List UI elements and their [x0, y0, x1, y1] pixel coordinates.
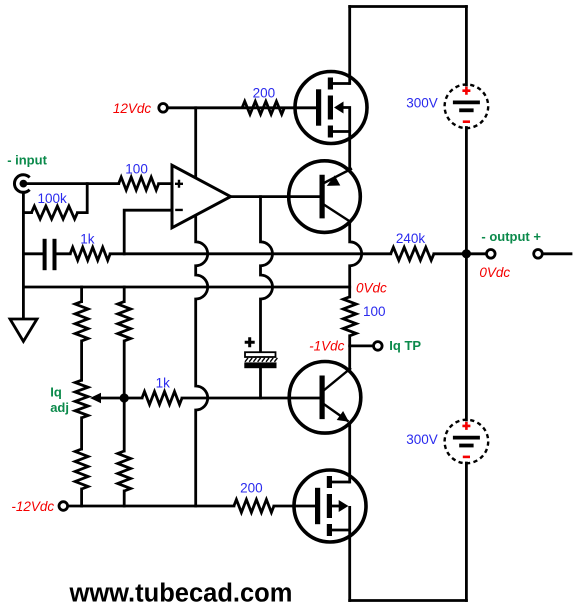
- wire chain2 middle: [123, 341, 126, 451]
- svg-text:Iq TP: Iq TP: [389, 338, 421, 353]
- wire op-amp - input to feedback node: [124, 210, 172, 254]
- svg-text:240k: 240k: [396, 231, 426, 246]
- resistor 100 (vertical, 0V to -1V): [343, 297, 356, 336]
- potentiometer Iq adj element: [75, 380, 88, 418]
- svg-text:-12Vdc: -12Vdc: [11, 499, 54, 514]
- svg-text:200: 200: [240, 481, 263, 496]
- resistor 1k (Iq, Q2 base): [142, 392, 182, 405]
- transistor Q1 (PNP): [289, 161, 361, 233]
- wire pot wiper from junction: [100, 397, 125, 400]
- node output junction: [462, 249, 471, 258]
- svg-text:100k: 100k: [38, 191, 68, 206]
- resistor 200 (bottom, M2 gate): [234, 500, 274, 513]
- node input jack (- input): [14, 175, 29, 193]
- wire feedback line 1k to 240k: [110, 252, 391, 255]
- terminal Iq TP: [374, 342, 383, 351]
- wire 200 to M2 gate: [274, 505, 315, 508]
- wire input cap left lead: [23, 252, 42, 255]
- battery B1 300V (top): [445, 85, 489, 129]
- wire chain1 between pot and R: [80, 418, 83, 449]
- terminal - output: [487, 250, 496, 259]
- wire pot wiper arrow: [90, 393, 101, 403]
- terminal 12Vdc: [159, 104, 168, 113]
- wire Q1 collector down with hop over feedback: [350, 224, 362, 297]
- wire 0Vdc rail: [23, 286, 349, 289]
- wire 100 resistor to op-amp + input: [159, 182, 172, 185]
- wire op-amp output branch down to C2 with hops: [261, 197, 273, 353]
- svg-text:www.tubecad.com: www.tubecad.com: [69, 580, 293, 608]
- wire Iq TP lead: [350, 344, 374, 347]
- svg-text:1k: 1k: [80, 232, 95, 247]
- transistor M1 (top N-MOSFET): [295, 72, 367, 144]
- wire Q2 emitter to M2 drain: [348, 424, 351, 483]
- resistor 200 (top, M1 gate): [242, 101, 284, 114]
- wire 100k left stub: [23, 211, 31, 214]
- wire cap to 1k: [56, 252, 70, 255]
- node pot wiper junction: [120, 393, 129, 402]
- ground: [10, 319, 37, 341]
- wire 240k to output node: [434, 252, 462, 255]
- wire 12Vdc feed to 200 and M1 gate: [168, 106, 316, 109]
- resistor chain1 lower: [75, 449, 88, 489]
- terminal -12Vdc: [59, 502, 68, 511]
- wire battery B2 to bottom rail: [465, 463, 468, 601]
- svg-text:1k: 1k: [156, 376, 171, 391]
- wire -12Vdc rail to 200: [68, 505, 234, 508]
- wire bottom rail: [350, 599, 467, 602]
- battery B2 300V (bottom): [445, 420, 489, 464]
- wire 100 resistor to Q2 collector: [348, 336, 351, 369]
- wire output node to - output terminal: [471, 252, 487, 255]
- wire M2 source to bottom rail: [348, 530, 351, 601]
- svg-text:- output +: - output +: [481, 229, 541, 244]
- svg-text:0Vdc: 0Vdc: [479, 265, 510, 280]
- wire op-amp V+ / V- supply line with hops: [196, 108, 208, 506]
- svg-text:0Vdc: 0Vdc: [356, 281, 387, 296]
- terminal + output: [534, 250, 543, 259]
- wire C2 bottom lead: [259, 368, 262, 398]
- resistor chain2 lower: [118, 451, 131, 491]
- wire 1k(Iq) left lead from junction: [129, 397, 142, 400]
- svg-text:adj: adj: [50, 400, 69, 415]
- wire chain2 top stub: [123, 287, 126, 302]
- wire op-amp output to Q1 base: [231, 195, 322, 198]
- svg-text:- input: - input: [7, 152, 47, 167]
- svg-text:200: 200: [253, 86, 276, 101]
- resistor 1k (feedback shunt): [70, 247, 110, 260]
- svg-text:300V: 300V: [406, 432, 438, 447]
- transistor M2 (bottom MOSFET): [294, 470, 366, 542]
- resistor 100 (op-amp + input): [119, 177, 159, 190]
- wire chain1 top stub: [80, 287, 83, 302]
- svg-text:100: 100: [363, 304, 386, 319]
- capacitor C2 (electrolytic): [244, 337, 277, 368]
- wire top rail left drop to M1 drain: [348, 7, 351, 84]
- wire input jack down to ground: [22, 192, 25, 319]
- wire chain2 bottom stub: [123, 491, 126, 506]
- resistor 100k (input shunt): [32, 206, 78, 219]
- resistor 240k (feedback): [391, 247, 434, 260]
- capacitor C1 (input coupling): [45, 239, 55, 270]
- wire top rail right drop to battery B1: [465, 7, 468, 86]
- svg-text:12Vdc: 12Vdc: [113, 101, 152, 116]
- resistor chain1 upper: [75, 302, 88, 341]
- svg-text:100: 100: [125, 162, 148, 177]
- wire M1 source to Q1 emitter: [348, 132, 351, 170]
- resistor chain2 upper: [118, 302, 131, 341]
- svg-text:Iq: Iq: [50, 385, 62, 400]
- wire battery column B1 to B2 through output node: [465, 128, 468, 421]
- svg-text:300V: 300V: [406, 96, 438, 111]
- op-amp U1: [172, 165, 231, 228]
- wire chain1 bottom stub: [80, 489, 83, 506]
- wire 100k right stub up to + input wire: [78, 184, 88, 213]
- wire input jack to 100 resistor (+ input): [27, 182, 118, 185]
- wire top rail: [350, 5, 467, 8]
- svg-text:-1Vdc: -1Vdc: [309, 339, 345, 354]
- transistor Q2 (NPN): [289, 362, 361, 434]
- wire chain1 between R and pot: [80, 341, 83, 380]
- wire 1k(Iq) to Q2 base: [182, 397, 322, 400]
- wire + output terminal lead: [542, 252, 571, 255]
